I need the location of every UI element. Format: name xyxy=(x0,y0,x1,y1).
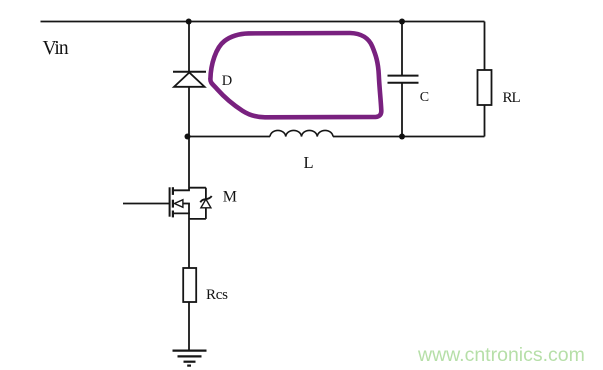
wire RL to mid rail xyxy=(484,105,486,137)
wire right vertical to RL xyxy=(484,22,486,71)
svg-text:Rcs: Rcs xyxy=(206,287,228,303)
wire mid rail left of inductor xyxy=(187,136,271,138)
wire Rcs to ground xyxy=(188,302,190,350)
svg-text:www.cntronics.com: www.cntronics.com xyxy=(417,344,585,366)
svg-text:RL: RL xyxy=(503,90,521,106)
wire diode to mid rail xyxy=(188,87,190,137)
capacitor C plates xyxy=(388,75,419,77)
wire capacitor bottom lead xyxy=(401,83,403,137)
source tap xyxy=(173,212,190,214)
channel segment top xyxy=(172,187,174,195)
svg-text:L: L xyxy=(304,153,314,172)
gate lead wire xyxy=(123,203,170,205)
ground xyxy=(173,351,207,366)
body diode triangle xyxy=(201,199,211,208)
current loop highlight xyxy=(210,33,381,117)
body diode cathode squiggle bar xyxy=(200,196,211,202)
body diode top connector xyxy=(189,187,206,189)
source vertical xyxy=(188,204,190,269)
inductor L xyxy=(270,130,333,136)
svg-text:C: C xyxy=(420,90,429,105)
wire mid rail right of inductor xyxy=(333,136,485,138)
wire capacitor top lead xyxy=(401,22,403,76)
wire left vertical from top rail to diode xyxy=(188,22,190,72)
wire top rail xyxy=(41,21,485,23)
diode D cathode bar xyxy=(173,71,206,73)
drain tap xyxy=(173,189,190,191)
diode D triangle xyxy=(174,73,205,87)
transistor M (MOSFET) xyxy=(123,187,212,268)
wire mid rail down to MOSFET drain xyxy=(188,137,190,191)
gate bar xyxy=(169,187,171,216)
node junction top-cap xyxy=(399,19,405,25)
body diode bottom connector xyxy=(189,218,206,220)
node junction mid-cap xyxy=(399,134,405,140)
body diode anode lead xyxy=(205,208,207,219)
svg-text:M: M xyxy=(223,188,237,205)
node junction mid-left xyxy=(185,134,191,140)
channel segment middle xyxy=(172,200,174,208)
svg-text:D: D xyxy=(222,73,232,89)
body diode cathode lead xyxy=(205,188,207,199)
channel segment bottom xyxy=(172,211,174,218)
resistor RL xyxy=(478,70,492,105)
body arrow line xyxy=(183,203,190,205)
body arrow head xyxy=(174,200,183,208)
node junction top-left xyxy=(186,19,192,25)
svg-text:Vin: Vin xyxy=(43,38,69,59)
resistor Rcs xyxy=(183,268,196,302)
